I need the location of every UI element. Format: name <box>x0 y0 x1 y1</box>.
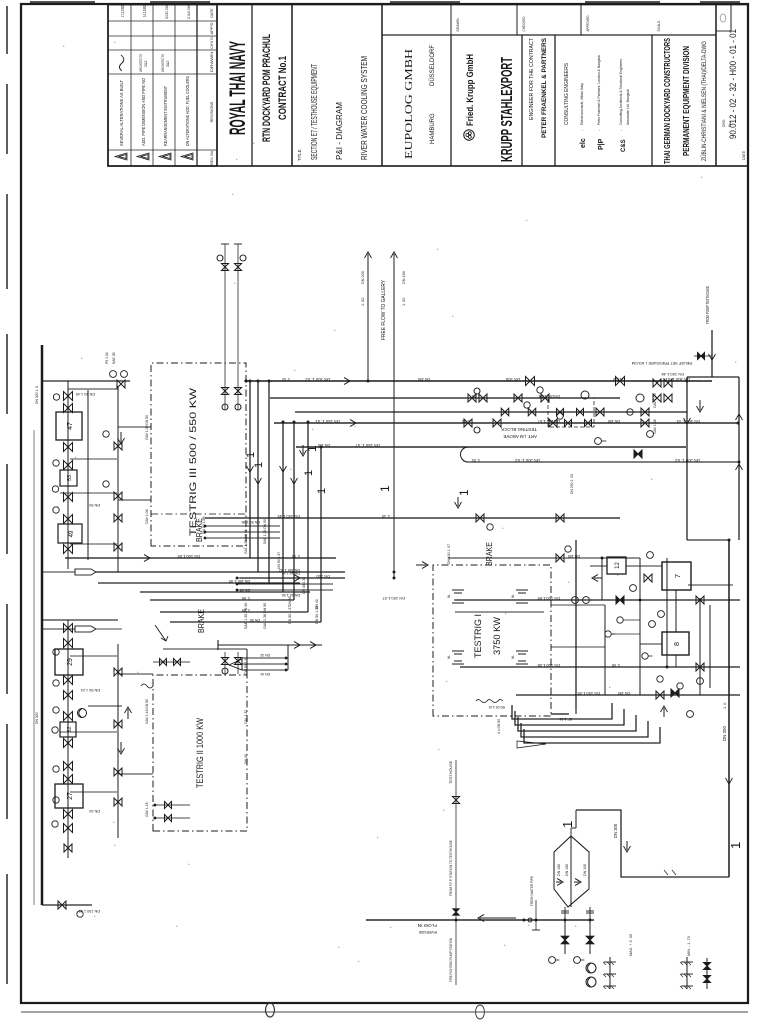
valve row on 1.45 <box>476 514 484 522</box>
valve group upper c <box>501 408 509 416</box>
svg-text:REV. No: REV. No <box>210 151 214 165</box>
valve GAV 1.22 <box>64 639 73 648</box>
svg-text:DN 100: DN 100 <box>568 554 580 558</box>
svg-text:DATE: DATE <box>742 150 746 160</box>
valve group upper b <box>464 419 472 427</box>
svg-text:DN 150 1.45: DN 150 1.45 <box>277 514 300 519</box>
svg-text:GAV 1.18: GAV 1.18 <box>145 802 149 817</box>
pipe branch L7 end <box>170 621 321 623</box>
pipe DN25 1.69 branch b <box>160 611 308 613</box>
flow arrow cluster II <box>118 742 125 754</box>
pipe from pump testhouse <box>711 330 713 377</box>
svg-text:SCALE: SCALE <box>656 20 661 31</box>
wire: comp7 link <box>675 590 677 600</box>
svg-text:DN 40 1.40: DN 40 1.40 <box>76 392 95 396</box>
wire: testrig III cooler line <box>67 381 69 569</box>
testrig II dashed box <box>153 675 247 831</box>
svg-text:1: 1 <box>457 489 471 496</box>
wire: header left drop <box>42 904 92 906</box>
svg-text:1: 1 <box>560 821 575 828</box>
valve FFP b <box>453 909 459 915</box>
company box KRUPP <box>521 35 523 166</box>
svg-text:1. 56: 1. 56 <box>292 554 300 558</box>
pipe branch 1.50 <box>295 411 687 413</box>
pump river a <box>586 963 596 973</box>
svg-text:29: 29 <box>67 658 74 666</box>
svg-text:2&3: 2&3 <box>144 61 148 67</box>
wire: cluster II stub c <box>70 791 117 793</box>
svg-text:DN ALTERATIONS ADD. FUEL COOL: DN ALTERATIONS ADD. FUEL COOLERS <box>185 76 190 146</box>
svg-text:1: 1 <box>728 842 743 849</box>
svg-text:DN 50: DN 50 <box>288 596 292 606</box>
wire: comp link d <box>612 633 640 635</box>
hexagon flow meter bypass <box>554 836 589 907</box>
valve GAV 1.08 a <box>653 379 661 387</box>
strainer capsule <box>75 569 96 575</box>
svg-text:DN 150: DN 150 <box>318 443 330 447</box>
flow arrow header 1.62 <box>288 575 300 582</box>
wire: rig I drop a <box>551 604 605 606</box>
instrument BUT 1.50 <box>636 394 644 402</box>
pipe DN200 1.62 header <box>240 577 345 579</box>
wire: collector drop <box>687 539 729 541</box>
svg-text:TESTRIG I: TESTRIG I <box>473 614 484 658</box>
owner box ROYAL THAI NAVY <box>216 5 218 167</box>
flow arrow cluster III <box>118 432 125 444</box>
svg-text:1. 66: 1. 66 <box>242 596 250 600</box>
flow arrow loop <box>624 841 631 852</box>
wire: cluster III stub a <box>70 458 117 460</box>
component 7 <box>662 562 691 590</box>
revision row 1 <box>115 153 127 160</box>
svg-text:1. 52: 1. 52 <box>402 298 406 306</box>
svg-text:GAL 1.32: GAL 1.32 <box>244 710 248 724</box>
instrument PI 1.19 <box>53 797 59 803</box>
instrument row on lower line <box>103 431 109 437</box>
svg-text:DN 200 1. 03: DN 200 1. 03 <box>515 458 540 463</box>
svg-text:-: - <box>596 129 601 131</box>
wire: intake to hexagon upper <box>564 907 566 920</box>
valve comp area c <box>696 663 704 671</box>
valve pair on 1.51 <box>549 419 557 427</box>
punch hole 1 <box>266 1003 275 1017</box>
svg-text:3750 KW: 3750 KW <box>492 617 503 655</box>
drop valves into testrig II <box>153 817 190 819</box>
svg-text:DN 150 1.09: DN 150 1.09 <box>577 691 600 696</box>
svg-text:DN 150 1. 57: DN 150 1. 57 <box>355 443 380 448</box>
svg-text:DN 50 1.37: DN 50 1.37 <box>288 606 292 624</box>
instrument PI 1.05 <box>53 460 59 466</box>
svg-text:DN 200 1. 02: DN 200 1. 02 <box>305 377 330 382</box>
svg-text:P5 1.34: P5 1.34 <box>105 352 109 364</box>
flexible joint squiggle <box>476 700 503 703</box>
title box <box>381 5 383 167</box>
instrument TI 1.10 <box>52 821 58 827</box>
svg-text:DN 300: DN 300 <box>35 712 39 724</box>
svg-text:EUPOLOG GMBH: EUPOLOG GMBH <box>403 49 415 159</box>
svg-text:FIRE FIGHTING PUMP STATION: FIRE FIGHTING PUMP STATION <box>449 938 453 982</box>
wire: cluster III stub c <box>70 543 117 545</box>
svg-text:DN 150 1. 51: DN 150 1. 51 <box>315 419 340 424</box>
relief valve <box>694 355 712 357</box>
reducer station dashed box <box>548 398 594 427</box>
valve GAV 1.20 <box>64 824 73 833</box>
svg-text:1. 0: 1. 0 <box>723 703 727 709</box>
pipe 1.69 lower segment <box>455 611 544 613</box>
svg-text:1. 51: 1. 51 <box>462 419 470 423</box>
pipe DN100 1.66 lower segment <box>455 599 740 601</box>
instrument PI 1.07 <box>53 507 59 513</box>
flow arrow header 1.02 <box>337 378 350 385</box>
valves on cluster II lower line <box>114 668 122 676</box>
svg-text:DN 300 1. 0: DN 300 1. 0 <box>35 386 39 404</box>
svg-text:SAE 35: SAE 35 <box>112 352 116 364</box>
svg-text:CONTRACT No.1: CONTRACT No.1 <box>277 56 289 120</box>
svg-text:FROM PUMP TESTHOUSE: FROM PUMP TESTHOUSE <box>705 286 710 324</box>
svg-text:Electroconsult, Milan Italy: Electroconsult, Milan Italy <box>579 83 584 125</box>
valve GAV 1.27 <box>64 762 73 771</box>
svg-text:1: 1 <box>253 462 265 468</box>
svg-text:90.012 - 02 - 32 - H00 - 01 -: 90.012 - 02 - 32 - H00 - 01 - 01 <box>728 29 738 139</box>
svg-text:30.DEC.1981: 30.DEC.1981 <box>164 5 169 19</box>
svg-text:GAV 1.06: GAV 1.06 <box>145 509 149 524</box>
svg-text:ARCHITECTS: ARCHITECTS <box>161 54 165 72</box>
pipe DN25 1.69 branch <box>140 591 310 593</box>
revision row 2 <box>137 153 149 160</box>
svg-text:-: - <box>618 129 623 131</box>
instrument PI 1.17 <box>52 727 58 733</box>
svg-text:APP'D: APP'D <box>210 22 214 35</box>
instrument SAN 1.03 <box>647 431 654 438</box>
wire: drop to testrig II box a <box>118 673 153 675</box>
valve GAV 1.44 <box>64 461 73 470</box>
instrument PI 7.13 <box>658 611 665 618</box>
instrument PI intake b <box>574 957 581 964</box>
instrument BUT big <box>581 391 589 399</box>
svg-text:ARCHITECTS: ARCHITECTS <box>139 54 143 72</box>
svg-text:SEVERAL ALTERATIONS AS BUILT: SEVERAL ALTERATIONS AS BUILT <box>119 80 124 146</box>
svg-text:47: 47 <box>67 422 74 430</box>
valve GAV 1.28 <box>64 775 73 784</box>
valve at junction III <box>117 380 125 388</box>
valve group upper a <box>468 394 476 402</box>
wire: pump riser <box>687 376 739 378</box>
svg-text:14.1.1982: 14.1.1982 <box>142 5 147 17</box>
svg-text:DN 32: DN 32 <box>260 653 270 657</box>
pipe free flow to gallery b <box>393 262 395 578</box>
consulting engineers box <box>651 35 653 166</box>
svg-text:DN 150: DN 150 <box>565 864 569 876</box>
pipe FFP line <box>455 760 457 985</box>
approval column <box>382 34 716 36</box>
svg-text:NL: NL <box>511 594 515 598</box>
svg-text:Consulting Architects & Struct: Consulting Architects & Structural Engin… <box>618 59 623 125</box>
pipe U-bend DN200 1.03 <box>461 447 740 462</box>
svg-text:ENGINEER FOR THE CONTRACT: ENGINEER FOR THE CONTRACT <box>529 37 535 120</box>
pipe DN100 1.08 branch <box>460 666 740 668</box>
svg-text:TESTRIG II 1000 KW: TESTRIG II 1000 KW <box>195 718 205 788</box>
svg-text:DN 40: DN 40 <box>260 672 270 676</box>
valve on header drop <box>58 901 66 909</box>
svg-text:DN 150: DN 150 <box>618 691 630 695</box>
valve GAV 1.29 <box>64 810 73 819</box>
flow arrow down right <box>697 400 704 412</box>
contractor box THAI GERMAN <box>715 5 717 167</box>
svg-text:DN 150 1.48: DN 150 1.48 <box>661 372 684 377</box>
svg-text:1: 1 <box>378 485 392 492</box>
svg-text:Associate Ltd. Bangkok: Associate Ltd. Bangkok <box>625 89 630 125</box>
svg-text:FREE FLOW TO GALLERY: FREE FLOW TO GALLERY <box>381 279 387 340</box>
wire: testrig II cooler line <box>67 620 69 838</box>
pipe DN200 1.02 header <box>245 380 712 382</box>
cooler 32 <box>60 722 76 737</box>
ghost line above header <box>33 430 35 905</box>
wire: comp8 link a <box>675 590 677 632</box>
strainer line b <box>686 957 688 989</box>
scan edge artifact right <box>30 1 95 3</box>
pipe lower collector <box>738 377 740 540</box>
instrument PI low <box>697 678 704 685</box>
hexagon middle line <box>570 836 572 907</box>
svg-text:1: 1 <box>305 445 319 452</box>
valve GAV 1.45 <box>64 493 73 502</box>
wire: header drop to cluster II <box>42 619 118 621</box>
arrows in hexagon <box>556 879 563 886</box>
pump BF 1.28 <box>78 709 87 718</box>
strainer line a <box>609 957 611 989</box>
svg-text:1: 1 <box>303 470 315 476</box>
arrow into testrig I top <box>416 562 428 569</box>
svg-text:GAV 1.09: GAV 1.09 <box>653 393 657 408</box>
valve GAV 1.41 <box>64 392 73 401</box>
svg-text:DN 200: DN 200 <box>418 377 430 381</box>
wire: rig I drop b <box>551 646 605 648</box>
svg-text:C&S: C&S <box>621 139 627 152</box>
valve GAV 1.42 <box>64 404 73 413</box>
instrument pair at junction III <box>110 371 117 378</box>
main supply header DN300 (thick) <box>41 345 44 905</box>
instrument PI 7.11 <box>583 597 590 604</box>
svg-text:GAL 1.36 DN 50: GAL 1.36 DN 50 <box>244 529 248 554</box>
svg-text:RTN DOCKYARD POM PRACHUL: RTN DOCKYARD POM PRACHUL <box>261 34 273 142</box>
flow arrows on bundle <box>247 461 254 472</box>
svg-text:DN 50 1.31: DN 50 1.31 <box>244 657 248 674</box>
svg-text:DN 25: DN 25 <box>240 588 250 592</box>
svg-text:8: 8 <box>674 642 681 646</box>
component 12 <box>607 557 626 574</box>
svg-text:ADD. PIPE DIMENSION AND PIPE N: ADD. PIPE DIMENSION AND PIPE NO <box>141 77 146 146</box>
valve intake a <box>561 936 569 944</box>
instrument PV 1.03 <box>630 585 637 592</box>
svg-text:11.AUG.1981: 11.AUG.1981 <box>186 5 191 19</box>
svg-text:7: 7 <box>673 574 682 578</box>
svg-text:DN 200 1. 62: DN 200 1. 62 <box>279 568 300 572</box>
svg-text:GAV 1.16 DN 50: GAV 1.16 DN 50 <box>145 699 149 724</box>
svg-text:ROYAL THAI NAVY: ROYAL THAI NAVY <box>225 41 250 135</box>
valves in reducer station <box>557 409 564 416</box>
instrument PV 1.03 <box>595 438 602 445</box>
line break mark <box>664 870 668 875</box>
svg-text:BF 1.06: BF 1.06 <box>559 717 572 721</box>
flow arrow collector upper <box>684 412 691 424</box>
component 8 <box>662 632 689 655</box>
wire: strainer link line <box>706 958 708 989</box>
instrument TI 7.10 <box>572 597 579 604</box>
svg-text:DN 300: DN 300 <box>722 726 727 741</box>
svg-text:DN 150: DN 150 <box>557 864 561 876</box>
svg-text:DRAWN: DRAWN <box>455 18 460 31</box>
svg-text:REVISIONS: REVISIONS <box>210 101 214 122</box>
svg-text:DN 100: DN 100 <box>583 864 587 876</box>
brake connector marks testrig I <box>452 590 464 603</box>
svg-text:Peter Fraenkel & Partners, Lon: Peter Fraenkel & Partners, London & Bang… <box>596 55 601 125</box>
svg-text:1: 1 <box>245 452 257 458</box>
svg-text:THAI GERMAN DOCKYARD CONSTRUCT: THAI GERMAN DOCKYARD CONSTRUCTORS <box>662 38 672 164</box>
svg-text:1. 03: 1. 03 <box>472 458 480 462</box>
instrument TI 1.06 <box>52 486 58 492</box>
svg-text:FROM F.F.P. STATION TO TESTH: FROM F.F.P. STATION TO TESTHOUSE <box>449 840 453 896</box>
svg-text:DN 200 1. 03: DN 200 1. 03 <box>570 474 574 494</box>
wire: cross connector b <box>601 558 603 600</box>
svg-text:PETER FRAENKEL & PARTNERS: PETER FRAENKEL & PARTNERS <box>541 37 548 138</box>
wire: testrig III return line <box>87 390 89 560</box>
svg-text:FLOW IN: FLOW IN <box>418 923 437 928</box>
instrument PI 7.17 <box>642 653 648 659</box>
svg-text:REARRANGEMENT INSTRUMENT: REARRANGEMENT INSTRUMENT <box>163 86 168 146</box>
instrument TI 1.16 <box>53 707 59 713</box>
strainer capsule II <box>75 626 96 632</box>
wire: fresh water stub <box>535 900 537 930</box>
wire: brake supply elbow <box>287 645 289 670</box>
svg-text:1: 1 <box>316 488 328 494</box>
wire: pump suction line b <box>589 920 591 954</box>
instrument TI 1.14 <box>53 649 59 655</box>
svg-text:P|P: P|P <box>598 138 605 150</box>
svg-text:DN 300: DN 300 <box>613 823 618 838</box>
wire: comp right run b <box>709 605 711 688</box>
wire: comp link c <box>623 619 640 621</box>
svg-text:RELIEF SET PRESSURE 1 KG/CM: RELIEF SET PRESSURE 1 KG/CM <box>632 361 692 365</box>
svg-text:RG 09 1.49: RG 09 1.49 <box>488 705 505 709</box>
valve pair on 1.58 <box>514 394 522 402</box>
instrument PI intake a <box>549 957 556 964</box>
svg-text:CHECKED: CHECKED <box>521 16 526 31</box>
svg-text:DN 50 1.5B: DN 50 1.5B <box>241 520 260 524</box>
instrument PI 7.18 <box>657 676 663 682</box>
big loop pipe <box>576 810 729 877</box>
svg-text:SAE 1.35 DN 50: SAE 1.35 DN 50 <box>263 519 267 544</box>
svg-text:3&2: 3&2 <box>166 61 170 67</box>
company box EUPOLOG <box>450 35 452 166</box>
valve GAV 1.46 <box>64 515 73 524</box>
valve intake b <box>586 936 594 944</box>
pennant marker on bundle <box>517 741 546 748</box>
wire: cluster III cross <box>68 388 118 390</box>
brake feed pipes testrig II group B <box>242 669 288 671</box>
punch hole 2 <box>476 1005 485 1019</box>
svg-text:CH'K D: CH'K D <box>210 36 214 49</box>
svg-text:NL: NL <box>511 655 515 659</box>
svg-text:Fried. Krupp GmbH: Fried. Krupp GmbH <box>465 54 476 126</box>
diagonal connector arrow <box>155 625 168 641</box>
svg-text:NL: NL <box>447 594 451 598</box>
wire: 1.03 lower part <box>470 446 686 448</box>
svg-text:DN 100 1. 65: DN 100 1. 65 <box>229 579 250 583</box>
svg-text:GAV 1.05 DN 50: GAV 1.05 DN 50 <box>145 415 149 440</box>
instrument TV <box>687 711 694 718</box>
pump river b <box>586 977 596 987</box>
valves on testrig III right stubs <box>222 264 229 271</box>
pipe bundle to testrigs <box>249 381 251 558</box>
valve at end of cluster II line <box>64 844 72 852</box>
wire: comp12 link b <box>626 565 662 567</box>
pipe DN150 return branch <box>96 571 345 573</box>
svg-text:49: 49 <box>69 530 75 537</box>
svg-text:DRAWN: DRAWN <box>210 51 214 72</box>
wire: cross connector <box>639 558 641 695</box>
valve SAV solid <box>634 450 642 458</box>
svg-text:CONSULTING ENGINEERS: CONSULTING ENGINEERS <box>564 63 570 125</box>
arrow end of staircase <box>661 706 668 717</box>
wire: comp8 drop <box>640 643 662 645</box>
wire: cluster II stub b <box>60 731 117 733</box>
valve GAV 1.47 <box>64 545 73 554</box>
svg-text:MAX. + 2. 00: MAX. + 2. 00 <box>629 934 633 956</box>
drawing number box <box>716 30 731 32</box>
title block outline <box>108 5 748 167</box>
wire: strainer drop <box>42 571 75 573</box>
revision row 3 <box>159 153 171 160</box>
instrument TI 7.19 <box>677 683 683 689</box>
svg-text:PERMANENT EQUIPMENT DIVISION: PERMANENT EQUIPMENT DIVISION <box>681 46 691 156</box>
pipe DN100 1.66 branch <box>150 599 294 601</box>
valve row on 1.02 header <box>526 377 535 386</box>
svg-text:TESTRIG III 500 / 550 KW: TESTRIG III 500 / 550 KW <box>188 388 199 536</box>
valve GAV 1.24 <box>64 691 73 700</box>
testrig III internal divider <box>151 513 246 515</box>
instrument TI 7.15 <box>605 631 611 637</box>
instrument TI 1.18 <box>53 766 59 772</box>
flow arrow collector <box>736 464 743 477</box>
instrument TI 7.14 <box>649 621 656 628</box>
wire: cluster II stub a <box>70 655 117 657</box>
wire: comp right run a <box>699 598 701 695</box>
revision table <box>108 5 217 167</box>
valve strainer b <box>704 976 711 983</box>
svg-text:MIN. - 1. 70: MIN. - 1. 70 <box>687 936 691 956</box>
scan specks <box>137 672 138 673</box>
svg-text:DN 200: DN 200 <box>505 377 520 382</box>
page edge line <box>21 1011 748 1013</box>
flow arrow up cluster II <box>125 707 132 719</box>
svg-text:DN 100 1.08: DN 100 1.08 <box>537 663 560 668</box>
flow arrow header 1.51 <box>343 420 356 427</box>
instrument PI 1.15 <box>53 680 59 686</box>
flow arrow 1.56 <box>138 555 150 562</box>
wire: drop to testrig II box b <box>118 773 153 775</box>
svg-text:DN 40: DN 40 <box>244 754 248 764</box>
wire: comp8 link b <box>675 655 677 667</box>
instrument TI 7.16 <box>617 617 623 623</box>
valve solid comp area <box>616 596 624 604</box>
svg-text:FRESH WATER PIPE: FRESH WATER PIPE <box>530 876 534 906</box>
wire: pump link <box>88 705 122 707</box>
svg-text:DRG: DRG <box>722 119 726 127</box>
pipe DN150 1.51 header <box>274 422 738 424</box>
pipe testrig I row a <box>604 605 606 695</box>
flow arrow comp area <box>592 575 602 582</box>
valve solid on 1.09 <box>671 689 679 697</box>
